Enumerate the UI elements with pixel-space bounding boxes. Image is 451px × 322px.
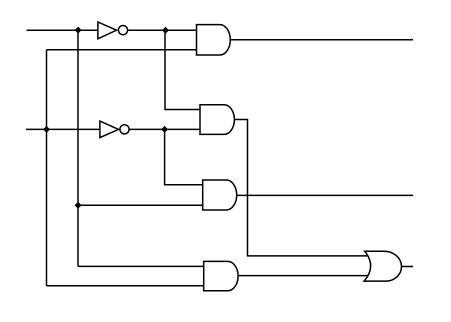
wire U7 output xyxy=(402,266,414,268)
wire U4 output to OR upper input xyxy=(235,120,369,256)
and-gate U5 xyxy=(203,180,237,210)
wire input B xyxy=(26,128,100,130)
inverter U1 triangle xyxy=(98,22,117,39)
node A junction 1 xyxy=(75,27,82,34)
wire U2 output to AND2 xyxy=(129,128,200,130)
wire B to AND4 lower input xyxy=(47,285,204,287)
wire input A xyxy=(27,29,98,31)
wire NOT-A branch to AND2 upper input xyxy=(165,30,200,109)
wire B vertical branch x=46.5 xyxy=(46,50,48,286)
wire A to AND4 upper input xyxy=(78,265,204,267)
wire A to AND3 lower input xyxy=(78,204,203,206)
and-gate U3 xyxy=(197,25,231,55)
inverter U2 triangle xyxy=(100,121,119,138)
or-gate U7 xyxy=(364,251,401,281)
wire A vertical branch x=78 xyxy=(77,30,79,266)
wire U6 output to OR lower input xyxy=(238,275,368,277)
node NOT-A junction xyxy=(162,27,169,34)
wire U5 output xyxy=(237,194,413,196)
wire NOT-B branch to AND3 upper input xyxy=(165,129,203,184)
and-gate U6 xyxy=(204,261,238,290)
and-gate U4 xyxy=(200,105,234,135)
wire B to AND1 lower input xyxy=(47,49,197,51)
inverter U2 bubble xyxy=(120,125,129,134)
node NOT-B junction xyxy=(161,126,168,133)
node B junction 1 xyxy=(43,126,50,133)
wire U1 output to AND1 xyxy=(128,29,197,31)
inverter U1 bubble xyxy=(118,26,127,35)
wire U3 output xyxy=(231,39,414,41)
node A junction 2 xyxy=(75,202,82,209)
